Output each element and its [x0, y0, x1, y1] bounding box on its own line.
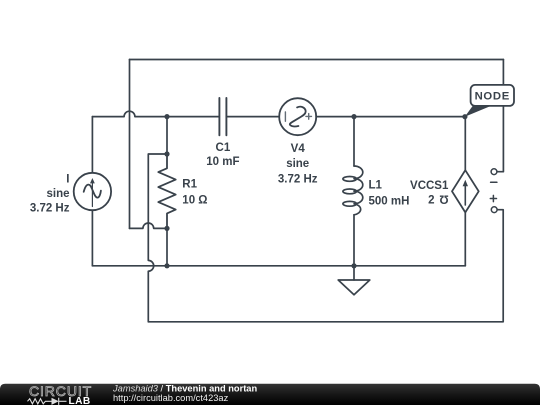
junction at R1 branch and ground rail [164, 263, 169, 268]
junction at L1 bottom and ground rail [351, 263, 356, 268]
wire main horizontal with hop [92, 111, 219, 116]
svg-text:R1: R1 [182, 178, 197, 190]
label V4 [278, 143, 318, 186]
wire I source top [91, 117, 93, 173]
footer logo zigzag diode [28, 398, 67, 405]
node flag NODE [465, 85, 514, 117]
svg-text:3.72 Hz: 3.72 Hz [278, 174, 318, 186]
wire right drop to minus terminal [497, 60, 503, 172]
port plus terminal [490, 195, 497, 212]
controlled source VCCS1 [452, 117, 479, 266]
svg-text:sine: sine [286, 158, 309, 170]
node NODE junction at VCCS1 top [462, 114, 467, 119]
wire ground rail [92, 265, 465, 267]
current source I [74, 173, 111, 210]
svg-text:2: 2 [428, 194, 434, 206]
label I [30, 174, 70, 215]
label VCCS1 [410, 180, 449, 207]
svg-text:10 mF: 10 mF [206, 156, 239, 168]
svg-text:L1: L1 [369, 180, 383, 192]
wire left drop [129, 60, 131, 229]
svg-text:500 mH: 500 mH [369, 196, 410, 208]
port minus terminal [491, 169, 497, 183]
resistor R1 [158, 154, 175, 228]
svg-text:LAB: LAB [69, 396, 91, 405]
junction at R1 top branch and main wire [164, 114, 169, 119]
wire bottom-left horizontal with hop [130, 223, 168, 228]
svg-text:10 Ω: 10 Ω [182, 194, 207, 206]
wire I source bottom [91, 210, 93, 266]
voltage source V4 [279, 98, 316, 135]
label R1 [182, 178, 207, 206]
wire R1 top branch [166, 117, 168, 154]
svg-text:C1: C1 [216, 142, 231, 154]
svg-text:V4: V4 [291, 143, 306, 155]
label C1 [206, 142, 239, 168]
svg-text:VCCS1: VCCS1 [410, 180, 449, 192]
junction at R1 bottom terminal [164, 226, 169, 231]
svg-text:sine: sine [46, 188, 69, 200]
svg-text:3.72 Hz: 3.72 Hz [30, 202, 70, 214]
svg-text:Ω: Ω [439, 193, 448, 205]
wire L1 bottom [353, 215, 355, 266]
svg-text:http://circuitlab.com/ct423az: http://circuitlab.com/ct423az [113, 393, 229, 403]
wire L1 top [353, 117, 355, 166]
footer bar [0, 384, 540, 405]
capacitor C1 [219, 98, 226, 135]
wire R1 left branch [148, 154, 167, 322]
ground [338, 266, 370, 295]
junction at L1 top and main wire [351, 114, 356, 119]
junction at R1 top terminal [164, 151, 169, 156]
wire cap to V4 [226, 116, 279, 118]
inductor L1 [343, 166, 363, 215]
wire V4 to node [316, 116, 465, 118]
svg-text:NODE: NODE [475, 91, 510, 103]
svg-text:I: I [66, 174, 69, 186]
wire R1 bottom to rail [166, 228, 168, 265]
wire top rail [130, 59, 504, 61]
wire bottom rail to plus [148, 210, 503, 322]
label L1 [369, 180, 410, 208]
